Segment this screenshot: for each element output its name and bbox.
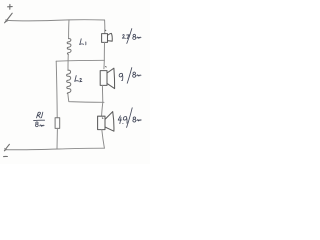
wire node to L2 — [67, 61, 69, 71]
tweeter cone — [108, 33, 113, 41]
output terminal bottom-left — [4, 144, 9, 151]
plus polarity mark — [8, 4, 13, 9]
tweeter box — [102, 34, 108, 43]
wire woofer bottom to bottom rail — [102, 130, 105, 149]
label R1 / 8ohm fraction — [34, 112, 45, 127]
wire L2 bottom corner to lower bus — [68, 94, 104, 103]
right rail: midrange to lower bus junction — [102, 85, 103, 116]
label 9/8ohm (midrange) — [119, 68, 141, 84]
node line (horizontal bus y~60.5) — [56, 59, 104, 62]
wire node-line left corner down to R1 — [56, 61, 57, 117]
resistor R1 box — [55, 118, 60, 129]
right rail: tweeter to midrange — [103, 42, 106, 68]
midrange dot — [105, 66, 108, 68]
label L2 — [75, 76, 82, 82]
wire L1 bottom to node — [67, 54, 69, 60]
inductor L2 — [67, 70, 71, 94]
woofer cone — [105, 112, 114, 132]
tweeter dot — [104, 29, 107, 31]
input terminal top-left — [5, 13, 13, 23]
wire R1 bottom to bottom rail — [56, 128, 58, 149]
label 2.7/8ohm (tweeter) — [122, 29, 141, 44]
wire top rail — [7, 20, 104, 21]
label L1 — [80, 39, 86, 45]
wire drop to L1 — [68, 20, 70, 39]
label 4.9/8ohm (woofer) — [118, 108, 141, 128]
midrange speaker cone — [107, 68, 115, 88]
woofer box — [98, 116, 105, 129]
midrange speaker box — [100, 71, 107, 86]
minus polarity mark — [4, 155, 8, 157]
bottom rail — [6, 148, 105, 150]
woofer dot — [101, 117, 104, 119]
inductor L1 — [67, 39, 71, 55]
right rail: top to tweeter — [104, 20, 106, 33]
